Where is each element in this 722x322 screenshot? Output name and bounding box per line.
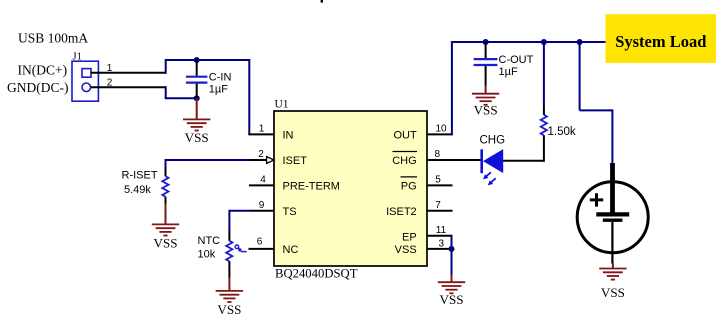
svg-text:VSS: VSS xyxy=(474,103,498,118)
input arrow on U1 pin 2 xyxy=(267,157,274,164)
battery BT1 circle xyxy=(577,182,648,253)
pin 6 stub NC xyxy=(249,248,275,250)
ground symbol VSS (C-OUT) xyxy=(472,94,499,105)
wire J1 pin1 riser to input rail xyxy=(165,60,167,74)
svg-text:CHG: CHG xyxy=(392,155,416,167)
svg-text:TS: TS xyxy=(283,206,297,218)
connector J1 pin 2 (round pad) xyxy=(82,83,91,92)
wire battery negative lead xyxy=(611,222,613,264)
wire EP drop to VSS pin xyxy=(451,235,453,249)
node junction at pin 3 xyxy=(449,246,455,252)
capacitor C-IN plates xyxy=(186,77,208,83)
NC wiper arrowhead xyxy=(238,248,243,253)
connector J1 pin 1 (square pad) xyxy=(82,69,91,78)
connector J1 body xyxy=(72,61,98,101)
wire J1 pin2 horizontal xyxy=(91,86,166,88)
svg-text:10: 10 xyxy=(435,123,447,134)
wire NTC bottom lead xyxy=(228,261,230,277)
svg-text:6: 6 xyxy=(257,236,263,247)
ground stem below U1 VSS xyxy=(451,275,453,283)
wire TS net drop to NTC xyxy=(228,210,230,231)
svg-text:EP: EP xyxy=(402,231,417,243)
capacitor C-OUT plates xyxy=(474,59,498,65)
pin 3 stub VSS xyxy=(427,248,452,250)
svg-text:3: 3 xyxy=(439,238,445,249)
wire U1 pin 10 stub xyxy=(427,133,452,135)
resistor 1.50k zigzag xyxy=(541,115,547,135)
ground stem below NTC xyxy=(228,278,230,291)
battery BT1 long plate xyxy=(596,212,629,216)
battery plus sign xyxy=(590,193,603,206)
pin 5 stub PG xyxy=(427,184,453,186)
wire U1 pin 8 to LED cathode xyxy=(427,159,482,161)
wire ISET net to R-ISET xyxy=(166,159,251,161)
svg-text:IN: IN xyxy=(283,130,294,142)
svg-text:VSS: VSS xyxy=(395,244,417,256)
wire OUT riser xyxy=(451,42,453,135)
overline for CHG pin xyxy=(393,151,418,153)
svg-text:CHG: CHG xyxy=(480,135,506,147)
svg-text:IN(DC+): IN(DC+) xyxy=(18,62,68,77)
ground stem below C-OUT xyxy=(485,86,487,94)
svg-text:U1: U1 xyxy=(275,99,289,111)
svg-text:PG: PG xyxy=(401,181,417,193)
svg-text:10k: 10k xyxy=(198,248,216,260)
svg-text:2: 2 xyxy=(258,149,264,160)
svg-text:ISET2: ISET2 xyxy=(386,206,417,218)
node junction at C-IN bottom xyxy=(194,95,200,101)
svg-text:GND(DC-): GND(DC-) xyxy=(7,80,69,95)
wire TS net horizontal xyxy=(229,210,250,212)
svg-text:C-IN: C-IN xyxy=(209,72,232,84)
node junction at 1.50k resistor xyxy=(541,39,547,45)
wire LED anode to resistor branch xyxy=(503,160,544,162)
battery BT1 short plate xyxy=(603,218,623,221)
ground stem below C-IN xyxy=(196,98,198,119)
wire resistor bottom lead xyxy=(543,135,545,162)
wire input top rail xyxy=(165,59,250,61)
node junction at battery branch xyxy=(577,39,583,45)
resistor R-ISET zigzag xyxy=(162,176,168,196)
svg-text:PRE-TERM: PRE-TERM xyxy=(283,181,340,193)
ground symbol VSS (NTC) xyxy=(216,291,243,302)
LED cathode bar xyxy=(480,149,483,173)
ground symbol VSS (battery) xyxy=(599,269,626,280)
op IC U1 body xyxy=(274,111,427,266)
ground symbol VSS (U1) xyxy=(438,282,465,293)
svg-text:VSS: VSS xyxy=(439,292,463,307)
LED light arrow 1 xyxy=(483,172,491,179)
svg-text:VSS: VSS xyxy=(185,130,209,145)
svg-text:ISET: ISET xyxy=(283,155,308,167)
pin 4 stub PRE-TERM xyxy=(249,184,274,186)
pin 11 stub EP xyxy=(427,235,452,237)
svg-text:4: 4 xyxy=(260,174,266,185)
svg-text:VSS: VSS xyxy=(153,236,177,251)
wire R-ISET bottom lead xyxy=(165,197,167,204)
wire rail drop to pin 1 of U1 xyxy=(248,59,250,134)
svg-text:5.49k: 5.49k xyxy=(124,184,151,196)
System Load block xyxy=(606,14,717,63)
svg-text:1: 1 xyxy=(259,123,265,134)
svg-text:9: 9 xyxy=(259,200,265,211)
capacitor C-OUT bottom lead xyxy=(485,66,487,86)
node junction at C-IN top xyxy=(194,57,200,63)
capacitor C-IN bottom lead xyxy=(196,84,198,99)
svg-text:System Load: System Load xyxy=(615,32,706,51)
svg-text:USB 100mA: USB 100mA xyxy=(18,31,88,46)
LED light arrow 2 xyxy=(488,178,496,185)
svg-text:5: 5 xyxy=(435,174,441,185)
ground symbol VSS (C-IN) xyxy=(183,119,210,130)
svg-text:VSS: VSS xyxy=(217,302,241,317)
wire battery branch jog xyxy=(580,109,613,111)
svg-text:NC: NC xyxy=(283,244,299,256)
svg-text:BQ24040DSQT: BQ24040DSQT xyxy=(275,267,358,281)
ground stem below battery xyxy=(612,264,614,269)
thermistor NTC zigzag xyxy=(226,241,232,261)
overline for PG pin xyxy=(401,176,418,178)
battery BT1 positive post xyxy=(610,163,615,214)
NC wiper hook wire xyxy=(238,248,246,251)
capacitor C-OUT top lead xyxy=(485,42,487,58)
wire battery branch drop xyxy=(579,42,581,110)
svg-text:11: 11 xyxy=(436,225,447,236)
LED triangle xyxy=(483,149,503,173)
wire R-ISET top lead xyxy=(165,159,167,167)
wire VSS pin drop to ground xyxy=(451,249,453,275)
svg-text:R-ISET: R-ISET xyxy=(122,170,158,182)
wire J1 pin2 drop xyxy=(165,86,167,98)
wire resistor top lead to rail xyxy=(543,42,545,107)
wire battery top feed xyxy=(611,109,613,164)
wire J1 pin1 horizontal xyxy=(91,72,166,74)
svg-text:7: 7 xyxy=(435,200,441,211)
ground stem below R-ISET xyxy=(165,204,167,225)
capacitor C-IN top lead xyxy=(196,60,198,76)
wire output top rail xyxy=(451,41,606,43)
svg-text:VSS: VSS xyxy=(601,285,625,300)
ground symbol VSS (R-ISET) xyxy=(152,224,179,235)
top edge tick mark xyxy=(321,0,323,3)
svg-text:8: 8 xyxy=(435,149,441,160)
NC wiper circle xyxy=(235,245,239,249)
pin 7 stub ISET2 xyxy=(427,210,453,212)
node junction at C-OUT xyxy=(483,39,489,45)
wire to C-IN bottom xyxy=(165,97,197,99)
svg-text:1.50k: 1.50k xyxy=(548,126,576,138)
svg-text:1µF: 1µF xyxy=(499,66,518,78)
svg-text:OUT: OUT xyxy=(393,130,417,142)
svg-text:C-OUT: C-OUT xyxy=(499,54,534,66)
svg-text:NTC: NTC xyxy=(198,235,221,247)
svg-text:1µF: 1µF xyxy=(209,84,228,96)
wire into U1 pin 1 xyxy=(248,133,274,135)
